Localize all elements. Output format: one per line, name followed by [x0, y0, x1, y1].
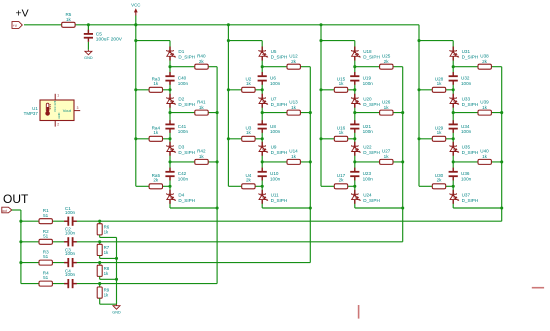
svg-text:100n: 100n	[363, 81, 374, 86]
svg-text:GND: GND	[84, 56, 93, 60]
svg-text:U24: U24	[363, 193, 372, 198]
svg-text:D4: D4	[178, 193, 184, 198]
svg-text:D_SIPH: D_SIPH	[363, 198, 380, 203]
svg-text:OUT: OUT	[3, 192, 29, 206]
svg-text:D_SIPH: D_SIPH	[178, 150, 195, 155]
svg-text:1k: 1k	[339, 130, 345, 135]
svg-text:D_SIPH: D_SIPH	[462, 198, 479, 203]
svg-text:3: 3	[77, 106, 79, 110]
svg-text:100n: 100n	[461, 81, 472, 86]
svg-text:GND: GND	[112, 311, 121, 315]
svg-text:100uF 200V: 100uF 200V	[96, 36, 123, 42]
svg-text:1k: 1k	[291, 105, 297, 110]
svg-text:U35: U35	[462, 144, 471, 149]
svg-text:1k: 1k	[199, 105, 205, 110]
svg-text:100n: 100n	[65, 230, 76, 235]
svg-text:D1: D1	[178, 49, 184, 54]
svg-text:2k: 2k	[482, 59, 488, 64]
svg-text:1k: 1k	[246, 81, 252, 86]
svg-text:R40: R40	[197, 54, 206, 59]
svg-text:100n: 100n	[65, 251, 76, 256]
svg-text:100n: 100n	[461, 176, 472, 181]
svg-text:U14: U14	[289, 149, 298, 154]
svg-text:100n: 100n	[270, 81, 281, 86]
svg-text:1k: 1k	[66, 17, 72, 22]
svg-text:D_SIPH: D_SIPH	[271, 102, 288, 107]
svg-text:U18: U18	[363, 49, 372, 54]
svg-text:100n: 100n	[65, 210, 76, 215]
svg-text:U40: U40	[480, 149, 489, 154]
svg-text:+V: +V	[13, 24, 18, 28]
svg-text:R42: R42	[197, 149, 206, 154]
svg-text:100n: 100n	[363, 129, 374, 134]
svg-text:2k: 2k	[246, 178, 252, 183]
svg-text:1k: 1k	[153, 130, 159, 135]
svg-text:U25: U25	[382, 54, 391, 59]
svg-text:VCC: VCC	[131, 2, 140, 7]
svg-text:U38: U38	[480, 54, 489, 59]
svg-text:2k: 2k	[291, 59, 297, 64]
svg-text:51: 51	[43, 233, 49, 238]
svg-text:51: 51	[43, 254, 49, 259]
svg-text:D_SIPH: D_SIPH	[178, 102, 195, 107]
svg-text:1k: 1k	[384, 154, 390, 159]
svg-text:1k: 1k	[104, 293, 109, 298]
svg-text:2k: 2k	[437, 178, 443, 183]
svg-text:100n: 100n	[178, 81, 189, 86]
svg-text:D_SIPH: D_SIPH	[363, 102, 380, 107]
svg-text:100n: 100n	[461, 129, 472, 134]
svg-text:2k: 2k	[384, 59, 390, 64]
svg-text:U33: U33	[462, 96, 471, 101]
svg-text:1k: 1k	[437, 130, 443, 135]
svg-text:U39: U39	[480, 99, 489, 104]
svg-text:Vout: Vout	[63, 108, 72, 113]
svg-text:1k: 1k	[482, 154, 488, 159]
svg-text:+V: +V	[16, 8, 29, 20]
svg-text:1k: 1k	[437, 81, 443, 86]
svg-text:D_SIPH: D_SIPH	[462, 150, 479, 155]
svg-text:D2: D2	[178, 96, 184, 101]
svg-text:100n: 100n	[270, 129, 281, 134]
svg-text:D3: D3	[178, 144, 184, 149]
svg-text:1: 1	[57, 94, 59, 98]
svg-text:2k: 2k	[199, 59, 205, 64]
svg-text:R41: R41	[197, 99, 206, 104]
svg-text:GND: GND	[57, 113, 61, 119]
svg-text:U12: U12	[289, 54, 298, 59]
svg-text:1k: 1k	[104, 271, 109, 276]
svg-text:1k: 1k	[339, 81, 345, 86]
svg-text:D_SIPH: D_SIPH	[271, 198, 288, 203]
svg-text:U26: U26	[382, 99, 391, 104]
svg-text:1k: 1k	[291, 154, 297, 159]
svg-text:D_SIPH: D_SIPH	[271, 55, 288, 60]
svg-text:51: 51	[43, 213, 49, 218]
svg-text:100n: 100n	[65, 272, 76, 277]
svg-text:100n: 100n	[270, 176, 281, 181]
svg-text:1k: 1k	[384, 105, 390, 110]
svg-text:51: 51	[43, 275, 49, 280]
svg-text:1k: 1k	[153, 81, 159, 86]
svg-text:2k: 2k	[153, 178, 159, 183]
svg-text:2k: 2k	[339, 178, 345, 183]
svg-text:D_SIPH: D_SIPH	[178, 198, 195, 203]
svg-text:U31: U31	[462, 49, 471, 54]
svg-text:D_SIPH: D_SIPH	[462, 55, 479, 60]
svg-text:D_SIPH: D_SIPH	[178, 55, 195, 60]
svg-text:1k: 1k	[246, 130, 252, 135]
svg-text:2: 2	[57, 123, 59, 127]
svg-text:100n: 100n	[178, 129, 189, 134]
svg-text:1k: 1k	[199, 154, 205, 159]
svg-text:100n: 100n	[178, 176, 189, 181]
svg-text:U27: U27	[382, 149, 391, 154]
svg-text:D_SIPH: D_SIPH	[363, 55, 380, 60]
svg-text:out: out	[2, 209, 7, 213]
svg-text:1k: 1k	[104, 229, 109, 234]
svg-text:U9: U9	[271, 144, 277, 149]
svg-text:U37: U37	[462, 193, 471, 198]
svg-text:U5: U5	[271, 49, 277, 54]
svg-text:D_SIPH: D_SIPH	[462, 102, 479, 107]
svg-text:U11: U11	[271, 193, 280, 198]
svg-text:D_SIPH: D_SIPH	[363, 150, 380, 155]
svg-text:U22: U22	[363, 144, 372, 149]
svg-text:1k: 1k	[482, 105, 488, 110]
svg-text:U13: U13	[289, 99, 298, 104]
svg-text:TMP37: TMP37	[24, 111, 39, 116]
svg-text:100n: 100n	[363, 176, 374, 181]
svg-text:VCC 3V6: VCC 3V6	[53, 100, 57, 112]
svg-text:1k: 1k	[104, 250, 109, 255]
svg-text:U7: U7	[271, 96, 277, 101]
svg-text:D_SIPH: D_SIPH	[271, 150, 288, 155]
svg-text:U20: U20	[363, 96, 372, 101]
